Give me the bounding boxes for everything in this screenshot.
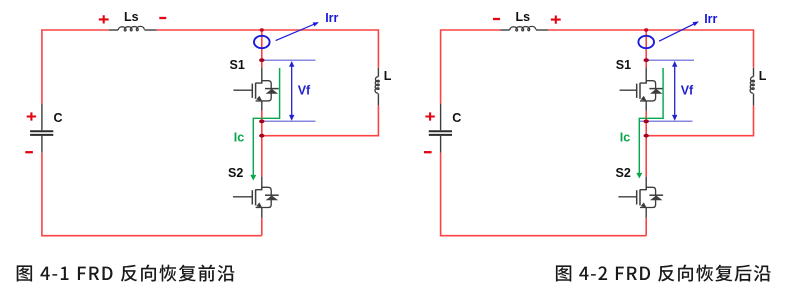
junction node S1 source (259, 120, 264, 124)
transistor S2 (233, 177, 279, 218)
svg-text:Ls: Ls (124, 10, 139, 24)
svg-text:Ic: Ic (620, 131, 630, 145)
Ls polarity + (right) (551, 16, 561, 24)
wire: left rail below cap, bottom rail to S2 (441, 153, 647, 236)
wire: left rail top (cap to top-left corner) (441, 30, 501, 104)
cap polarity + (27, 112, 36, 120)
svg-text:S1: S1 (230, 58, 245, 72)
wire: L bottom to mid junction (646, 105, 753, 135)
Irr arrow (659, 21, 699, 41)
transistor S2 (618, 177, 663, 218)
Vf measurement bottom line (260, 120, 316, 122)
caption figure 4-1 (17, 265, 235, 282)
svg-text:C: C (54, 111, 63, 125)
wire: top rail right of Ls to top-right corner and down to L (548, 30, 754, 68)
junction node S1 drain (259, 58, 264, 62)
svg-text:C: C (452, 111, 461, 125)
cap polarity - (424, 151, 432, 153)
wire: S1 source to mid junction to S2 drain (261, 111, 263, 177)
inductor Ls (109, 26, 157, 31)
svg-text:Ic: Ic (234, 131, 244, 145)
inductor Ls (501, 26, 549, 31)
wire: branch top (top rail to S1 drain) (261, 30, 263, 67)
wire: S2 source to bottom rail (645, 218, 647, 236)
Vf measurement top line (262, 59, 316, 61)
Ls polarity - (right) (159, 17, 166, 19)
Vf measurement top line (646, 59, 694, 61)
svg-text:Vf: Vf (681, 83, 694, 97)
junction node mid (to L) (644, 134, 649, 138)
Ic current path arrow (250, 68, 279, 181)
svg-text:L: L (384, 69, 392, 83)
Ic current path arrow (636, 68, 663, 179)
transistor S1 (233, 67, 278, 111)
wire: branch top (top rail to S1 drain) (645, 30, 647, 67)
wire: S2 source to bottom rail (261, 218, 263, 236)
svg-text:S2: S2 (616, 166, 631, 180)
junction node top (260, 28, 264, 31)
node circle (diode reverse recovery point) (254, 36, 270, 48)
svg-text:Irr: Irr (325, 11, 338, 25)
wire: left rail top (cap to top-left corner) (42, 30, 109, 104)
Vf double arrow (289, 61, 294, 121)
junction node S1 source (644, 120, 649, 124)
Vf measurement bottom line (640, 120, 693, 122)
wire: left rail below cap, bottom rail to S2 (42, 153, 262, 236)
junction node S1 drain (644, 58, 649, 62)
caption figure 4-2 (556, 265, 771, 282)
Ls polarity + (left) (99, 15, 109, 23)
svg-text:Ls: Ls (516, 10, 531, 24)
junction node mid (to L) (259, 134, 264, 138)
cap polarity + (425, 112, 434, 120)
wire: L bottom to mid junction (262, 105, 379, 135)
Irr arrow (276, 22, 319, 40)
capacitor C (429, 104, 452, 153)
wire: S1 source to mid junction to S2 drain (645, 111, 647, 177)
capacitor C (30, 104, 53, 153)
svg-text:L: L (759, 69, 767, 83)
node circle (diode reverse recovery point) (638, 36, 654, 48)
Ls polarity - (left) (493, 18, 500, 20)
cap polarity - (25, 151, 33, 153)
svg-text:S1: S1 (616, 58, 631, 72)
svg-text:Vf: Vf (298, 83, 311, 97)
junction node top (644, 28, 648, 31)
transistor S1 (620, 67, 664, 111)
Vf double arrow (672, 61, 677, 121)
svg-text:S2: S2 (228, 166, 243, 180)
wire: top rail right of Ls to top-right corner and down to L (157, 30, 379, 68)
inductor L (750, 68, 754, 106)
svg-text:Irr: Irr (704, 12, 717, 26)
inductor L (375, 68, 379, 106)
